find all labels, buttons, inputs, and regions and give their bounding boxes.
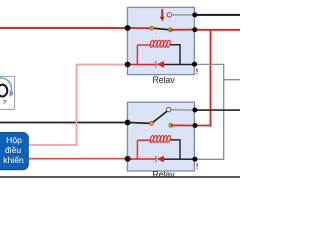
svg-text:Relav: Relav	[153, 169, 176, 179]
wire gray K2 NC to terminal	[171, 109, 196, 111]
wire red K1 coil bottom left	[128, 64, 156, 66]
relay K1 red actuation arrow	[160, 9, 165, 21]
relay K1 coil L1	[137, 40, 180, 65]
junction K1 right NO	[192, 27, 197, 32]
relay K1 pivot contact	[150, 26, 154, 30]
svg-text:khiển: khiển	[3, 155, 24, 165]
svg-text:điều: điều	[5, 145, 21, 155]
wire red NO right with branch to relay2 NO	[196, 29, 241, 126]
wire black lower right	[195, 109, 240, 111]
junction K2 right coil	[192, 157, 197, 162]
svg-text:Hộp: Hộp	[6, 135, 22, 145]
wire black long left	[0, 122, 128, 124]
relay K1 NO contact	[168, 28, 172, 32]
relay K1 NC contact circle	[167, 13, 171, 17]
relay K1 switch blade	[152, 28, 171, 30]
junction K1 left bottom	[125, 62, 131, 68]
pin mark red exclamation K2	[197, 163, 198, 169]
junction K1 left top	[125, 25, 131, 31]
relay K2 coil L2	[137, 135, 180, 159]
junction K1 right coil	[192, 62, 197, 67]
relay K2 NC contact circle	[166, 107, 170, 111]
wire black top right	[196, 14, 241, 16]
wire gray coil net (relay1 coil to relay2 coil, branch right)	[195, 64, 241, 159]
wire pink control (relay1 coil to control box)	[28, 65, 127, 146]
pin mark red exclamation K1	[196, 69, 197, 75]
relay K1 box	[127, 7, 194, 74]
bottom rail line	[0, 176, 240, 178]
motor M icon frame	[0, 76, 15, 109]
motor rotation arrow	[0, 78, 14, 103]
wire black K2 coil bottom right	[164, 158, 195, 160]
wire red K2 coil bottom left	[128, 158, 156, 160]
wire black K1 coil bottom right	[164, 64, 195, 66]
relay K2 pivot contact	[150, 122, 154, 126]
svg-text:Relav: Relav	[153, 75, 176, 85]
relay K2 box	[127, 102, 194, 171]
junction K2 left top	[125, 120, 131, 126]
junction K1 right NC	[192, 12, 197, 17]
junction K2 right NC	[192, 108, 197, 113]
wire red supply top	[0, 27, 128, 29]
wire red lower (control box to relay2 coil)	[28, 158, 128, 160]
wire red K1 NO to terminal	[170, 29, 195, 31]
wire red K1 common inside	[128, 27, 152, 29]
junction K2 left bottom	[125, 156, 131, 162]
motor M rotor ring	[0, 85, 7, 97]
control box (Hop dieu khien)	[0, 132, 28, 169]
wire black K2 common inside	[128, 122, 152, 125]
junction K2 right NO	[193, 123, 198, 128]
diode D1	[155, 61, 164, 68]
relay K2 switch blade (open, resting on NC)	[152, 111, 168, 123]
wire gray K1 NC to terminal	[172, 14, 196, 16]
relay K2 NO contact	[169, 124, 173, 128]
wire red K2 NO to terminal	[171, 124, 196, 126]
diode D2	[155, 156, 164, 163]
